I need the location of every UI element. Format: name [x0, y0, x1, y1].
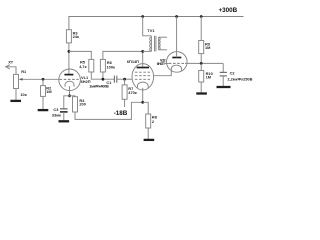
- wire VL1 cathode lead: [69, 86, 71, 96]
- svg-text:1мкФх400В: 1мкФх400В: [89, 84, 109, 89]
- resistor R3 24k: [66, 30, 79, 43]
- node junction dot R6/C1: [102, 78, 105, 81]
- wire wiper to VL1 grid: [23, 78, 59, 80]
- resistor R5 4.7k: [79, 59, 94, 72]
- wire R6 top to pentode anode node: [103, 51, 143, 59]
- svg-text:6Н2П: 6Н2П: [157, 61, 165, 66]
- svg-text:XT: XT: [8, 59, 14, 64]
- wire TV1 primary top to rail: [143, 17, 152, 36]
- potentiometer R1 10k: [14, 69, 28, 97]
- wire rail junction dot VL3 anode: [175, 15, 178, 18]
- svg-text:1М: 1М: [46, 89, 51, 94]
- wire R9 bottom lead: [200, 54, 202, 64]
- pentode VL2 6P14P: [127, 59, 154, 90]
- ground under R8: [144, 139, 155, 141]
- capacitor C2 2.2uF 250V: [220, 71, 253, 82]
- svg-text:6П14П: 6П14П: [127, 59, 139, 64]
- svg-text:-18В: -18В: [114, 110, 128, 117]
- transformer TV1: [147, 28, 160, 51]
- wire C1 to VL2 grid: [117, 78, 133, 80]
- wire R10 bottom lead: [200, 82, 202, 92]
- terminal XT input: [6, 59, 16, 74]
- node junction dot divider: [200, 62, 203, 65]
- wire R4 bottom to VL2 cathode node: [75, 102, 143, 119]
- ground under R1: [10, 100, 21, 102]
- node +300V rail: [69, 7, 244, 30]
- resistor R6 100k: [100, 59, 115, 72]
- resistor R7 470k: [122, 85, 137, 99]
- ground under C3: [59, 120, 70, 122]
- wire VL2 cathode lead: [142, 88, 144, 103]
- svg-text:100к: 100к: [107, 65, 115, 70]
- svg-text:24к: 24к: [73, 34, 79, 39]
- wire TV1 secondary bottom stub: [159, 49, 167, 51]
- wire cathode node to R8: [143, 102, 149, 114]
- ground under R10: [196, 92, 207, 94]
- triode VL1 6N2P: [59, 69, 91, 91]
- wire R6 bottom lead: [102, 72, 104, 79]
- wire C2 bottom lead: [222, 76, 224, 86]
- wire R9 top lead: [200, 17, 202, 41]
- resistor R9 1M: [199, 41, 211, 54]
- wire VL3 grid to divider node: [185, 62, 223, 64]
- wire R7 bottom stub: [124, 99, 126, 107]
- svg-text:+300В: +300В: [219, 7, 238, 14]
- svg-text:1М: 1М: [205, 45, 210, 50]
- svg-text:4,7к: 4,7к: [79, 64, 86, 69]
- wire R1 bottom to ground: [15, 89, 17, 101]
- wire C3 bottom lead: [63, 112, 65, 120]
- capacitor C1 1uF 400V: [89, 76, 117, 89]
- capacitor C3 33uF: [52, 107, 68, 118]
- core: [154, 36, 156, 52]
- wire VL2 anode lead: [142, 51, 144, 66]
- wire R2 top lead: [42, 79, 44, 85]
- wire rail junction dot TV1: [141, 15, 144, 18]
- svg-text:ТV1: ТV1: [147, 28, 155, 33]
- wire R2 bottom lead: [42, 96, 44, 109]
- node anode VL1 junction dot: [68, 50, 71, 53]
- wire R7 top lead: [124, 79, 126, 85]
- wire TV1 secondary top stub: [159, 36, 168, 38]
- resistor R8: [146, 114, 158, 128]
- wire R5 bottom to C1: [91, 72, 114, 79]
- ground under R2: [38, 109, 49, 111]
- wire VL3 anode lead: [176, 17, 178, 58]
- wire R3 bottom to anode node: [68, 43, 70, 74]
- wire rail junction dot R9: [200, 15, 203, 18]
- wire VL3 grid left stub: [164, 62, 168, 64]
- triode VL3 6N2P second half: [157, 52, 187, 73]
- svg-text:C3: C3: [53, 107, 59, 112]
- wire cathode to C3 and R4: [64, 96, 75, 109]
- ground under C2: [217, 86, 231, 88]
- node grid junction dot R2: [42, 78, 45, 81]
- resistor R4 200: [73, 97, 86, 112]
- svg-text:1М: 1М: [206, 74, 211, 79]
- wire VL2 screen grid to VL3 cathode: [154, 71, 172, 76]
- svg-text:C2: C2: [230, 71, 236, 76]
- resistor R10 1M: [199, 71, 213, 83]
- svg-text:10к: 10к: [20, 92, 26, 97]
- node junction dot VL2 cathode: [141, 101, 144, 104]
- node junction dot R7: [123, 78, 126, 81]
- wire anode node to R5 top: [69, 51, 91, 59]
- svg-text:470к: 470к: [128, 90, 136, 95]
- svg-text:200: 200: [79, 101, 86, 106]
- wire C2 top lead: [222, 63, 224, 72]
- svg-text:33мк: 33мк: [52, 112, 61, 117]
- node cathode junction dot: [68, 94, 71, 97]
- primary winding: [150, 36, 152, 52]
- svg-text:2,2мкФх250В: 2,2мкФх250В: [227, 77, 252, 82]
- node junction dot VL2 anode: [141, 50, 144, 53]
- secondary winding: [158, 37, 160, 50]
- resistor R2 1M: [41, 86, 53, 97]
- wire R8 bottom lead: [147, 128, 149, 139]
- svg-text:R1: R1: [21, 69, 27, 74]
- wire R10 top lead: [200, 63, 202, 70]
- wire TV1 primary bottom to VL2 anode node: [143, 50, 152, 52]
